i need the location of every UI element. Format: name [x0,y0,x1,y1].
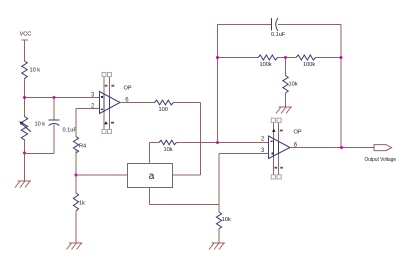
op-amp U2 power wires [274,123,279,175]
wire R4 to node B [75,150,77,194]
wire block a bottom [150,188,220,205]
capacitor C2 0.1uF [272,18,279,31]
svg-text:OP: OP [124,86,132,92]
wire node A3 to C1 bottom [25,153,55,155]
wire R5 to ground [75,211,77,243]
U1 pin8 mark [111,85,114,87]
svg-text:Output Voltage: Output Voltage [365,157,397,163]
resistor R6 100k [258,55,278,60]
wire P1 to node A3 [24,139,26,181]
capacitor C1 0.1uF [49,120,60,126]
wire C1 to node A3 row [53,125,55,154]
U2 pin4 mark [272,129,276,132]
resistor R9 10k [216,212,221,229]
svg-text:10 k: 10 k [30,68,41,74]
U1 pin7 mark [105,85,108,87]
resistor R8 10k [283,76,288,93]
svg-text:OP: OP [294,130,302,136]
resistor R3 10k [159,140,176,145]
svg-text:10k: 10k [164,147,173,153]
wire C2 to output node vertical [278,25,341,148]
wire VCC to R1 [24,44,26,61]
U2 terminal T7 [271,175,275,179]
U2 terminal T6 [277,118,281,122]
junction node A3 [23,152,26,155]
U1 minus mark [101,109,103,110]
svg-text:0.1uF: 0.1uF [63,128,78,134]
wire R3 row to U2 pin2 [150,142,160,144]
wire node A2 to capacitor C1 [53,98,55,120]
op-amp U1 power wires [104,77,110,130]
wire node C to R6 [218,57,259,59]
wire top to capacitor C2 [218,24,272,26]
ground GND1 [15,181,31,188]
U2 terminal T8 [277,175,281,179]
junction node A1 [23,96,26,99]
U1 terminal T3 [102,130,106,134]
junction node F [340,146,343,149]
U1 pin5 mark [111,122,114,124]
ground GND3 [276,107,292,114]
svg-text:0.1uF: 0.1uF [271,32,286,38]
resistor R2 100 [155,100,174,105]
junction node C [216,141,219,144]
ground GND4 [209,243,225,250]
svg-text:100k: 100k [260,62,272,68]
resistor R7 100k [296,55,316,60]
ground GND2 [67,243,83,250]
svg-text:10k: 10k [222,217,231,223]
wire node row y=97 to op-amp U1 pin3 [25,97,100,99]
U2 pin5 mark [280,167,283,169]
U1 power pin stubs [104,94,110,112]
wire node D to R8 [285,58,287,76]
wire R9 to ground [218,229,220,243]
op-amp U1 triangle [100,92,121,114]
svg-text:VCC: VCC [20,31,32,37]
op-amp U2 triangle [269,136,291,159]
junction node A2 [53,96,56,99]
wire R6 to node D [278,57,296,59]
wire U2 output to connector [290,147,374,149]
wire block a top to R3 [149,143,151,164]
svg-text:100k: 100k [303,62,315,68]
potentiometer P1 [19,117,31,141]
wire R2 to block a right side [173,103,201,176]
U2 pin1 mark [274,167,277,169]
U2 minus mark [271,141,273,142]
U1 terminal T2 [108,73,112,77]
wire R8 to ground [285,93,287,107]
wire R1 to node A1 [24,78,26,117]
U1 terminal T4 [108,130,112,134]
junction node B [75,174,78,177]
svg-text:a: a [149,171,155,182]
U1 plus mark [101,96,103,98]
wire U2 pin3 net [219,154,269,213]
svg-text:1k: 1k [79,201,85,207]
svg-text:10 k: 10 k [35,122,46,128]
wire R3 to U2 pin2 [176,142,268,144]
wire node B to block a [76,174,127,176]
output connector J1 [374,145,392,151]
svg-text:100: 100 [159,107,168,113]
junction node C2 [216,56,219,59]
resistor R1 10k vertical [22,61,28,78]
wire node C vertical to top [217,25,219,143]
junction node D [284,56,287,59]
block a [128,164,173,188]
VCC power symbol [22,40,29,44]
U1 pin4 mark [104,121,108,124]
svg-text:10k: 10k [289,82,298,88]
wire R7 to output node [316,57,341,59]
U1 terminal T1 [102,73,106,77]
U2 plus mark [272,153,274,155]
resistor R4 [73,137,78,153]
U2 terminal T5 [271,118,275,122]
wire U1 pin2 to R4 [76,109,100,137]
U2 power pin stubs [274,139,279,156]
svg-text:R4: R4 [79,144,86,150]
resistor R5 1k [73,193,78,211]
U2 pin7 mark [280,130,283,132]
junction node E [340,56,343,59]
wire U1 output to R2 [120,102,155,104]
